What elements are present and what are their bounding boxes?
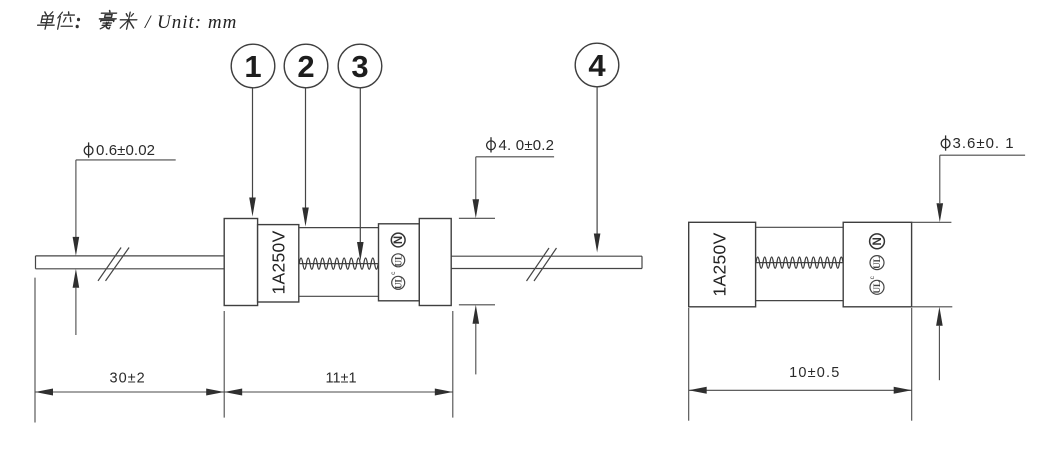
svg-text:1A250V: 1A250V [269, 230, 289, 294]
svg-text:/ Unit: mm: / Unit: mm [144, 12, 237, 33]
svg-text:30±2: 30±2 [110, 370, 146, 386]
svg-text:2: 2 [297, 49, 314, 84]
svg-text:UL: UL [872, 281, 882, 294]
svg-text:11±1: 11±1 [325, 370, 356, 386]
svg-text:UL: UL [393, 254, 403, 267]
svg-text:4. 0±0.2: 4. 0±0.2 [499, 137, 555, 154]
svg-text:UL: UL [872, 256, 882, 269]
svg-text:N: N [872, 237, 884, 245]
svg-text:10±0.5: 10±0.5 [789, 365, 840, 381]
svg-text:1A250V: 1A250V [710, 232, 730, 296]
svg-text:0.6±0.02: 0.6±0.02 [96, 142, 155, 159]
svg-text:UL: UL [393, 277, 403, 290]
svg-text:3.6±0. 1: 3.6±0. 1 [953, 135, 1015, 152]
svg-text:1: 1 [244, 49, 261, 84]
svg-text:3: 3 [351, 49, 368, 84]
svg-text:4: 4 [588, 48, 606, 83]
svg-text:N: N [393, 236, 405, 244]
